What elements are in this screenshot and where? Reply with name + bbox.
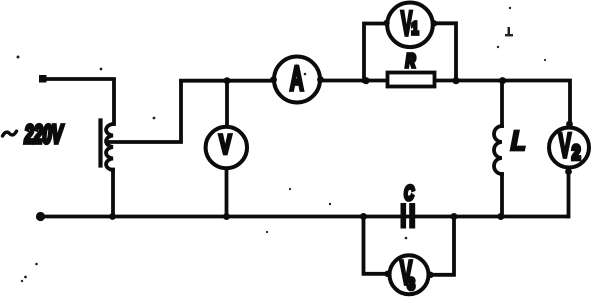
wire: voltmeter V bottom stem (225, 169, 229, 217)
inductor L (494, 81, 502, 217)
wire: bottom rail from left terminal to right corner (41, 215, 568, 219)
voltmeter V2 (549, 121, 589, 175)
svg-text:C: C (404, 181, 415, 205)
wire: top rail from tap riser to ammeter (181, 79, 273, 83)
label: R (406, 51, 416, 72)
wire: V3 right branch riser (431, 217, 455, 275)
svg-text:V: V (401, 5, 412, 43)
node: junction top rail / V1 right branch (452, 77, 459, 84)
node: junction top rail / V1 left branch (362, 77, 369, 84)
label: ~ 220V source (3, 120, 64, 149)
node: bottom-left input terminal (36, 212, 45, 221)
wire: voltmeter V top stem (225, 81, 229, 126)
voltmeter V (206, 127, 247, 168)
node: junction top rail / inductor branch (499, 77, 506, 84)
wire: V2 bottom lead (567, 169, 571, 217)
node: junction transformer / bottom rail (109, 213, 116, 220)
resistor R (388, 73, 435, 87)
svg-text:V: V (559, 126, 572, 164)
label: A (ammeter) (290, 59, 304, 97)
node: junction bottom rail / inductor (497, 213, 504, 220)
label: C (404, 181, 415, 205)
svg-text:L: L (511, 126, 525, 156)
svg-text:R: R (406, 51, 416, 72)
svg-text:1: 1 (412, 19, 419, 39)
label: V1 (401, 5, 419, 43)
label: L (511, 126, 525, 156)
wire: top-left terminal to transformer top (44, 79, 114, 124)
node: junction bottom rail / V3 left branch (360, 213, 367, 220)
wire: top rail resistor to V2 corner (436, 81, 570, 127)
node: top-left input terminal (39, 75, 47, 83)
voltmeter V1 (383, 3, 437, 48)
svg-text:3: 3 (408, 275, 415, 294)
wire: V1 left branch riser (364, 24, 386, 82)
svg-text:220V: 220V (24, 120, 64, 149)
node: junction top rail / voltmeter V stem (224, 77, 231, 84)
label: V3 (400, 254, 415, 294)
transformer T1 (autotransformer winding) (101, 121, 114, 171)
voltmeter V3 (384, 255, 433, 294)
svg-text:2: 2 (572, 141, 581, 165)
svg-text:A: A (290, 59, 304, 97)
svg-text:V: V (219, 129, 232, 159)
wire: transformer tap to top rail (109, 81, 182, 142)
node: junction bottom rail / V3 right branch (451, 213, 458, 220)
ammeter A (270, 57, 324, 103)
label: V2 (559, 126, 581, 165)
wire: top rail ammeter to resistor R (321, 79, 388, 83)
wire: V1 right branch drop (434, 23, 456, 81)
wire: V3 left branch drop (364, 217, 388, 274)
wire: transformer bottom lead to bottom rail (111, 170, 115, 217)
label: V (voltmeter) (219, 129, 232, 159)
node: junction bottom rail / voltmeter V (223, 213, 230, 220)
capacitor C (plates interrupt bottom rail) (401, 203, 416, 229)
